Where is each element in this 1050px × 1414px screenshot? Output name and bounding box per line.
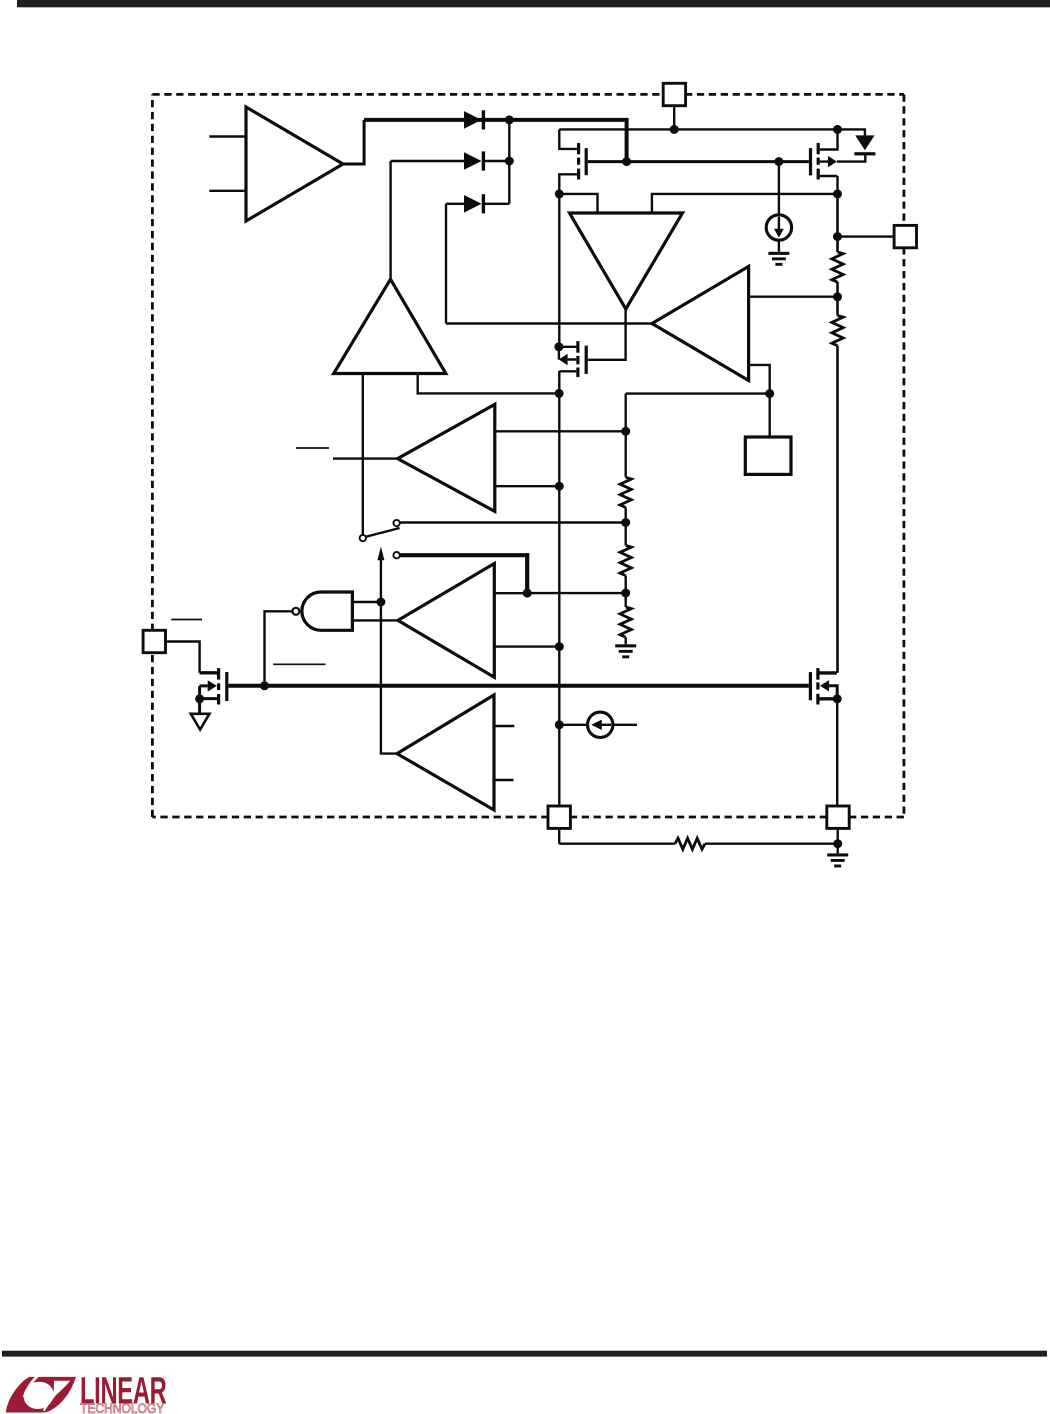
svg-text:TECHNOLOGY: TECHNOLOGY [80, 1400, 165, 1414]
